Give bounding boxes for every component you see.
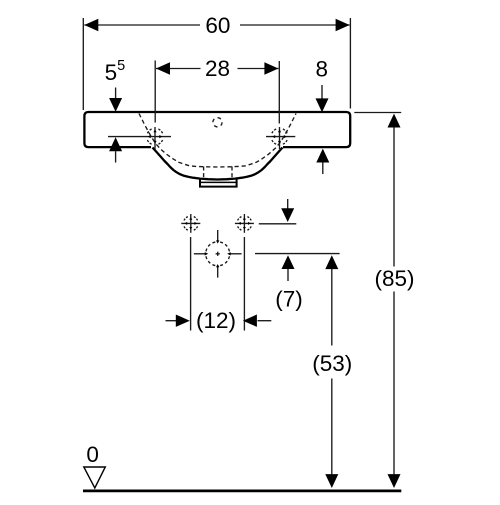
drain flange <box>200 179 237 187</box>
svg-text:(12): (12) <box>196 308 236 333</box>
svg-text:60: 60 <box>205 13 230 38</box>
dimension (7): lower witness line (drain level) <box>255 253 340 255</box>
dimension 8: upper arrow pointing down to basin top <box>321 85 323 99</box>
bowl outer curve <box>153 148 283 180</box>
datum triangle symbol <box>84 467 106 488</box>
dimension (7): upper arrow pointing down <box>287 199 289 209</box>
dimension (7): lower arrow pointing up <box>282 255 295 269</box>
dimension (7): upper witness line <box>259 223 297 225</box>
drain outlet center mark <box>194 230 242 278</box>
basin outer outline (front view) <box>84 112 350 147</box>
dimension 28: extension lines <box>154 61 156 123</box>
svg-text:8: 8 <box>316 57 329 82</box>
dimension (12): extension lines <box>190 237 192 331</box>
svg-text:28: 28 <box>205 56 230 81</box>
dimension 5.5: upper arrow pointing down to basin top <box>115 88 117 100</box>
floor line <box>83 489 401 492</box>
svg-text:0: 0 <box>86 442 99 467</box>
dimension (53): vertical line with arrows <box>325 255 338 269</box>
dimension 8: lower arrow pointing up to basin bottom <box>316 149 329 163</box>
lower fixing hole crosshair right <box>235 214 254 233</box>
lower fixing hole crosshair left <box>181 214 200 233</box>
dimension 60: extension lines <box>82 18 84 110</box>
drain outlet dashed circle <box>206 242 230 266</box>
dimension (12): arrows pointing inward <box>166 320 177 322</box>
dimension 5.5: lower arrow pointing up to witness line <box>109 137 122 151</box>
svg-text:(85): (85) <box>374 266 414 291</box>
dimension (85): top witness line at basin top level <box>354 112 401 114</box>
fixing hole crosshair left (on basin) <box>108 127 171 149</box>
drain hole dashed sides <box>203 167 205 178</box>
dimension 28: dimension line with arrows <box>156 68 201 70</box>
svg-text:(53): (53) <box>312 351 352 376</box>
dimension 60: dimension line with arrows <box>84 24 200 26</box>
tap hole dashed circle <box>213 118 222 127</box>
svg-text:(7): (7) <box>275 287 303 312</box>
dimension (85): vertical line with arrows <box>388 114 401 128</box>
bowl inner dashed outline <box>139 114 296 168</box>
fixing hole crosshair right (on basin) <box>266 127 295 149</box>
